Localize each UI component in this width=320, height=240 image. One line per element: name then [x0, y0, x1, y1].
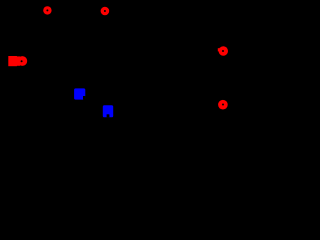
bond C=O carbonyl 1 — [46, 20, 48, 40]
group HO (hydroxyl, left) — [8, 56, 27, 66]
bond C-O3 — [210, 44, 218, 50]
atom O1 (ketone oxygen, top left) — [43, 6, 51, 14]
bond C-O4 — [210, 100, 218, 104]
bond N1-N2 — [85, 97, 102, 108]
atom O4 (right lower oxygen) — [218, 100, 228, 110]
phenyl ring — [178, 44, 215, 108]
atom N2 (ring nitrogen, NH) — [103, 105, 113, 117]
atom O3 (right upper oxygen) — [218, 46, 228, 55]
bond C=O carbonyl 2 — [90, 20, 105, 48]
bond C-C chain — [135, 85, 160, 100]
bond C-N1 — [76, 55, 80, 86]
bond N2-C — [113, 100, 135, 111]
bond C-C bridge — [47, 40, 76, 55]
bond HO-C — [27, 61, 42, 68]
bond C-C ring left — [42, 20, 47, 68]
atom N1 (ring nitrogen) — [74, 88, 85, 99]
atom O2 (ketone oxygen, top middle) — [101, 7, 110, 16]
bond chain to phenyl — [160, 78, 185, 85]
